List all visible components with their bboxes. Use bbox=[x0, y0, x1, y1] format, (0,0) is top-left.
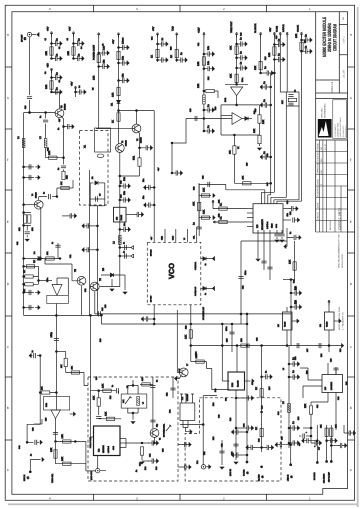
svg-text:1K: 1K bbox=[23, 289, 26, 292]
svg-text:C36: C36 bbox=[281, 437, 284, 440]
svg-text:R41: R41 bbox=[293, 280, 296, 283]
svg-text:MOD: MOD bbox=[172, 235, 175, 240]
svg-text:C16: C16 bbox=[189, 109, 192, 112]
svg-text:R78: R78 bbox=[320, 354, 323, 357]
svg-text:RX DATA: RX DATA bbox=[313, 472, 316, 480]
svg-text:1u: 1u bbox=[30, 454, 33, 456]
svg-text:MIC AUDIO: MIC AUDIO bbox=[323, 473, 326, 483]
svg-text:+5V: +5V bbox=[71, 81, 74, 86]
svg-text:10K: 10K bbox=[254, 65, 257, 70]
svg-text:+9V: +9V bbox=[112, 39, 115, 44]
svg-text:C2: C2 bbox=[66, 38, 69, 40]
svg-text:(A): (A) bbox=[261, 475, 264, 478]
svg-text:TX EN: TX EN bbox=[276, 26, 279, 32]
svg-text:B: B bbox=[7, 406, 9, 410]
svg-text:C9: C9 bbox=[99, 194, 102, 196]
svg-text:4u7: 4u7 bbox=[298, 443, 301, 446]
svg-text:ENGINEERING: ENGINEERING bbox=[324, 103, 327, 118]
svg-text:L4741-1: L4741-1 bbox=[266, 221, 269, 229]
svg-text:3: 3 bbox=[136, 496, 138, 500]
svg-text:C64: C64 bbox=[169, 410, 172, 413]
svg-text:DATE: DATE bbox=[317, 202, 320, 208]
svg-text:+12V: +12V bbox=[198, 27, 201, 33]
svg-text:C27: C27 bbox=[58, 119, 61, 122]
svg-text:D2: D2 bbox=[91, 177, 94, 179]
svg-text:+9V: +9V bbox=[47, 26, 50, 31]
svg-text:FL1: FL1 bbox=[181, 397, 184, 400]
svg-text:DRG No: DRG No bbox=[317, 211, 320, 219]
svg-text:H: H bbox=[7, 33, 9, 37]
svg-text:4u7: 4u7 bbox=[318, 447, 321, 450]
svg-text:C44: C44 bbox=[18, 446, 21, 449]
svg-text:R40: R40 bbox=[261, 406, 264, 409]
svg-text:10R: 10R bbox=[295, 33, 298, 38]
svg-text:10R: 10R bbox=[45, 51, 48, 56]
svg-text:C6: C6 bbox=[58, 80, 61, 82]
svg-text:R28: R28 bbox=[47, 148, 50, 151]
svg-text:10K: 10K bbox=[185, 334, 188, 339]
svg-text:1 OF 1: 1 OF 1 bbox=[343, 36, 346, 44]
svg-text:1n: 1n bbox=[265, 371, 268, 373]
svg-text:C29: C29 bbox=[24, 106, 27, 109]
svg-text:R25: R25 bbox=[226, 339, 229, 342]
svg-text:R18: R18 bbox=[214, 107, 217, 110]
svg-text:R24: R24 bbox=[195, 352, 198, 355]
svg-text:10K: 10K bbox=[102, 383, 105, 388]
svg-text:C62: C62 bbox=[218, 415, 221, 418]
svg-text:C4: C4 bbox=[80, 47, 83, 49]
svg-text:1n: 1n bbox=[294, 90, 297, 92]
svg-text:10K: 10K bbox=[105, 411, 108, 416]
svg-text:R83: R83 bbox=[345, 382, 348, 385]
svg-text:10K: 10K bbox=[61, 434, 64, 439]
svg-text:C35: C35 bbox=[258, 439, 261, 442]
svg-text:R12: R12 bbox=[207, 77, 210, 80]
svg-text:VCO: VCO bbox=[167, 263, 176, 279]
svg-text:C70: C70 bbox=[95, 377, 98, 380]
svg-text:RX AUD: RX AUD bbox=[258, 474, 261, 481]
svg-text:22K: 22K bbox=[304, 403, 307, 408]
svg-text:C72: C72 bbox=[203, 452, 206, 455]
svg-text:4: 4 bbox=[49, 7, 51, 11]
svg-text:IC7: IC7 bbox=[277, 324, 280, 327]
svg-text:(A): (A) bbox=[246, 471, 249, 474]
svg-text:10K: 10K bbox=[262, 119, 265, 124]
svg-text:C5002-13: C5002-13 bbox=[331, 81, 334, 93]
svg-text:1n: 1n bbox=[111, 385, 114, 387]
svg-text:1K: 1K bbox=[151, 55, 154, 58]
svg-text:10.1.97: 10.1.97 bbox=[343, 69, 346, 78]
svg-text:F: F bbox=[350, 158, 352, 162]
svg-text:10K: 10K bbox=[230, 73, 233, 78]
svg-text:1n: 1n bbox=[289, 232, 292, 234]
svg-text:MIC CLAMP: MIC CLAMP bbox=[328, 471, 331, 482]
svg-text:20MHz to 1000MHz: 20MHz to 1000MHz bbox=[327, 23, 333, 52]
svg-text:CONTROL: CONTROL bbox=[194, 262, 197, 270]
svg-text:MOD IN: MOD IN bbox=[229, 469, 232, 476]
svg-text:C76: C76 bbox=[294, 357, 297, 360]
svg-text:CHECKED: CHECKED bbox=[317, 152, 320, 162]
svg-text:C24: C24 bbox=[330, 359, 333, 362]
svg-text:10K: 10K bbox=[289, 259, 292, 264]
svg-text:C20: C20 bbox=[289, 212, 292, 215]
svg-text:RF OUT: RF OUT bbox=[150, 296, 153, 302]
svg-text:C82: C82 bbox=[337, 397, 340, 400]
svg-text:R3: R3 bbox=[92, 88, 95, 90]
svg-text:L4748-2: L4748-2 bbox=[107, 446, 110, 453]
svg-text:TCXO SEL: TCXO SEL bbox=[51, 474, 54, 483]
svg-text:R22: R22 bbox=[218, 214, 221, 217]
svg-text:MX365A: MX365A bbox=[102, 445, 105, 453]
svg-text:10n: 10n bbox=[294, 299, 297, 304]
svg-text:C4: C4 bbox=[78, 86, 81, 88]
svg-text:10n: 10n bbox=[142, 179, 145, 182]
svg-text:10n: 10n bbox=[294, 285, 297, 290]
svg-text:1n: 1n bbox=[51, 242, 54, 244]
svg-text:10n: 10n bbox=[207, 60, 210, 65]
svg-text:C52: C52 bbox=[84, 289, 87, 292]
svg-text:10R: 10R bbox=[197, 83, 200, 88]
svg-text:10n: 10n bbox=[123, 176, 126, 181]
svg-text:3: 3 bbox=[136, 7, 138, 11]
svg-text:C21: C21 bbox=[16, 242, 19, 245]
svg-text:X2: X2 bbox=[126, 386, 129, 388]
svg-text:D4: D4 bbox=[33, 252, 36, 254]
svg-text:R80: R80 bbox=[297, 417, 300, 420]
svg-text:C9: C9 bbox=[122, 38, 125, 40]
svg-text:1n: 1n bbox=[123, 242, 126, 244]
svg-text:F: F bbox=[7, 158, 9, 162]
svg-text:RF OUT: RF OUT bbox=[21, 34, 24, 42]
svg-text:FX 9244 5522: FX 9244 5522 bbox=[344, 126, 347, 137]
svg-text:GND: GND bbox=[161, 235, 164, 240]
svg-text:C45: C45 bbox=[266, 183, 269, 186]
svg-text:CV1: CV1 bbox=[122, 400, 125, 404]
svg-text:10n: 10n bbox=[207, 45, 210, 50]
svg-text:C77: C77 bbox=[306, 349, 309, 352]
svg-text:L4: L4 bbox=[142, 402, 145, 404]
svg-text:OSBORNE PARK: OSBORNE PARK bbox=[337, 122, 340, 137]
svg-text:+5V: +5V bbox=[47, 63, 50, 68]
svg-text:10K: 10K bbox=[93, 395, 96, 400]
svg-text:R20: R20 bbox=[193, 187, 196, 190]
svg-text:COUNT O/P: COUNT O/P bbox=[194, 286, 197, 296]
svg-text:FLASH IN: FLASH IN bbox=[254, 23, 257, 33]
svg-text:C51: C51 bbox=[69, 255, 72, 258]
svg-text:10R: 10R bbox=[67, 51, 70, 56]
svg-text:C63: C63 bbox=[225, 398, 228, 401]
svg-text:+5V: +5V bbox=[269, 27, 272, 32]
svg-text:1K: 1K bbox=[23, 270, 26, 273]
svg-text:TX AUD: TX AUD bbox=[243, 469, 246, 476]
svg-text:P.M: P.M bbox=[320, 170, 323, 174]
svg-text:DATA IN: DATA IN bbox=[282, 24, 285, 32]
svg-text:MC33171: MC33171 bbox=[330, 382, 333, 390]
svg-text:10R: 10R bbox=[45, 84, 48, 89]
svg-text:5K1: 5K1 bbox=[133, 155, 136, 160]
svg-text:100n: 100n bbox=[244, 271, 247, 275]
svg-text:R68: R68 bbox=[144, 467, 147, 470]
svg-text:C33: C33 bbox=[231, 452, 234, 455]
svg-text:47K: 47K bbox=[193, 201, 196, 206]
svg-text:R71: R71 bbox=[109, 396, 112, 399]
svg-text:POWER CONT: POWER CONT bbox=[93, 44, 96, 60]
svg-text:1n: 1n bbox=[57, 128, 60, 130]
svg-text:1n: 1n bbox=[204, 293, 207, 295]
svg-text:100p: 100p bbox=[50, 332, 53, 338]
svg-text:TUNE VOLT: TUNE VOLT bbox=[230, 21, 233, 33]
svg-text:C22: C22 bbox=[242, 286, 245, 289]
svg-text:1K: 1K bbox=[33, 260, 36, 263]
svg-text:1K: 1K bbox=[255, 387, 258, 390]
svg-text:C69: C69 bbox=[155, 467, 158, 470]
svg-text:CFW455: CFW455 bbox=[186, 394, 189, 401]
svg-text:1: 1 bbox=[309, 7, 311, 11]
svg-text:R75: R75 bbox=[268, 387, 271, 390]
svg-text:T8: T8 bbox=[159, 438, 162, 440]
svg-text:R67: R67 bbox=[45, 418, 48, 421]
svg-text:10K: 10K bbox=[61, 456, 64, 461]
svg-text:BFR96: BFR96 bbox=[35, 192, 38, 198]
svg-text:C3: C3 bbox=[44, 72, 47, 74]
svg-text:10n: 10n bbox=[122, 73, 125, 78]
svg-text:R26: R26 bbox=[306, 371, 309, 374]
svg-text:C15: C15 bbox=[275, 36, 278, 39]
svg-text:(A): (A) bbox=[290, 475, 293, 478]
svg-text:E: E bbox=[7, 220, 9, 224]
svg-text:1n: 1n bbox=[43, 192, 46, 194]
svg-text:10n: 10n bbox=[103, 59, 106, 64]
svg-text:DRAWN: DRAWN bbox=[317, 142, 320, 150]
svg-text:C8: C8 bbox=[102, 44, 105, 46]
svg-text:10R: 10R bbox=[240, 338, 243, 342]
svg-text:1K: 1K bbox=[112, 120, 115, 123]
svg-text:C53: C53 bbox=[104, 305, 107, 308]
svg-text:C79: C79 bbox=[339, 349, 342, 352]
svg-text:100n: 100n bbox=[225, 327, 228, 331]
svg-text:2. ? DENOTES 1%: 2. ? DENOTES 1% bbox=[342, 312, 345, 330]
svg-text:LINE IN: LINE IN bbox=[287, 474, 290, 481]
svg-text:1n: 1n bbox=[156, 380, 159, 382]
svg-text:C84: C84 bbox=[277, 412, 280, 415]
svg-text:R19: R19 bbox=[254, 109, 257, 112]
svg-text:1n: 1n bbox=[39, 116, 42, 118]
svg-text:78L05: 78L05 bbox=[284, 322, 287, 327]
svg-text:BFR96: BFR96 bbox=[140, 137, 143, 143]
svg-text:C81: C81 bbox=[316, 405, 319, 408]
svg-text:1u: 1u bbox=[31, 350, 34, 352]
svg-text:CIRCUIT DIAGRAM: CIRCUIT DIAGRAM bbox=[332, 24, 338, 51]
svg-text:10n: 10n bbox=[123, 190, 126, 195]
svg-text:C31: C31 bbox=[149, 454, 152, 457]
svg-text:MOD OUT: MOD OUT bbox=[90, 470, 93, 480]
svg-text:REVISION: REVISION bbox=[329, 220, 332, 230]
svg-text:10R: 10R bbox=[268, 52, 271, 57]
svg-text:B: B bbox=[350, 406, 352, 410]
svg-text:SPECTRA: SPECTRA bbox=[321, 108, 324, 118]
svg-text:C11: C11 bbox=[197, 43, 200, 46]
svg-text:10R: 10R bbox=[93, 75, 96, 80]
svg-text:10R: 10R bbox=[112, 92, 115, 97]
svg-text:10K: 10K bbox=[253, 128, 256, 133]
svg-text:10n: 10n bbox=[286, 213, 289, 216]
svg-text:10.1.97: 10.1.97 bbox=[324, 143, 327, 151]
svg-text:PH 9244 5577: PH 9244 5577 bbox=[342, 126, 345, 138]
svg-text:R21: R21 bbox=[218, 200, 221, 203]
svg-text:4: 4 bbox=[49, 496, 51, 500]
svg-text:R60: R60 bbox=[212, 403, 215, 406]
svg-text:(A): (A) bbox=[27, 476, 30, 479]
svg-text:C32: C32 bbox=[221, 444, 224, 447]
svg-text:P.M: P.M bbox=[320, 158, 323, 162]
svg-text:1n: 1n bbox=[57, 168, 60, 170]
svg-text:10n: 10n bbox=[122, 55, 125, 60]
svg-text:T4: T4 bbox=[31, 194, 34, 196]
svg-text:RF MOD: RF MOD bbox=[150, 249, 153, 256]
svg-text:C26: C26 bbox=[120, 195, 123, 198]
svg-text:IC8: IC8 bbox=[319, 324, 322, 327]
svg-text:C12: C12 bbox=[101, 308, 104, 311]
svg-text:10n: 10n bbox=[123, 223, 126, 226]
svg-text:(H): (H) bbox=[24, 37, 27, 40]
svg-text:RTC IN: RTC IN bbox=[23, 474, 26, 481]
svg-text:1n: 1n bbox=[123, 251, 126, 253]
svg-text:R61: R61 bbox=[229, 418, 232, 421]
svg-text:BFR96: BFR96 bbox=[125, 140, 128, 146]
svg-text:MODIFIED: MODIFIED bbox=[317, 186, 320, 196]
svg-text:R16: R16 bbox=[170, 47, 173, 50]
svg-text:C13: C13 bbox=[240, 33, 243, 36]
svg-text:2: 2 bbox=[223, 496, 225, 500]
svg-text:MX800 EXCITER MODULE: MX800 EXCITER MODULE bbox=[322, 16, 328, 57]
svg-text:R15: R15 bbox=[264, 57, 267, 60]
svg-text:C74: C74 bbox=[251, 382, 254, 385]
svg-text:C19: C19 bbox=[286, 201, 289, 204]
svg-text:1n: 1n bbox=[135, 470, 138, 472]
svg-text:BFR96: BFR96 bbox=[64, 103, 67, 110]
svg-text:R48: R48 bbox=[214, 389, 217, 392]
svg-text:1K: 1K bbox=[170, 55, 173, 58]
svg-text:C23: C23 bbox=[256, 338, 259, 341]
svg-text:APPROVED: APPROVED bbox=[317, 162, 320, 174]
svg-text:TXD: TXD bbox=[172, 26, 175, 31]
svg-text:+9V: +9V bbox=[152, 26, 155, 31]
svg-text:C34: C34 bbox=[243, 424, 246, 427]
svg-text:C14: C14 bbox=[151, 37, 154, 40]
svg-text:C30: C30 bbox=[139, 463, 142, 466]
svg-text:10K: 10K bbox=[203, 209, 206, 214]
svg-text:SN16: SN16 bbox=[271, 224, 274, 229]
svg-text:C65: C65 bbox=[162, 449, 165, 452]
svg-text:PWR OPTION: PWR OPTION bbox=[89, 436, 92, 448]
svg-text:C47: C47 bbox=[178, 369, 181, 372]
svg-text:2: 2 bbox=[223, 7, 225, 11]
svg-text:ISSUE: ISSUE bbox=[317, 178, 320, 185]
svg-text:E: E bbox=[350, 220, 352, 224]
svg-text:10n: 10n bbox=[142, 196, 145, 199]
svg-text:C66: C66 bbox=[32, 428, 35, 431]
svg-text:C25: C25 bbox=[120, 181, 123, 184]
svg-text:C46: C46 bbox=[266, 154, 269, 157]
svg-text:CLOCK: CLOCK bbox=[297, 24, 300, 32]
svg-text:1K: 1K bbox=[255, 427, 258, 430]
svg-text:1n: 1n bbox=[204, 264, 207, 266]
svg-text:COUNTER O/P: COUNTER O/P bbox=[202, 306, 205, 320]
svg-text:47K: 47K bbox=[230, 45, 233, 50]
svg-text:1: 1 bbox=[309, 496, 311, 500]
svg-text:H: H bbox=[350, 33, 352, 37]
svg-text:R23: R23 bbox=[185, 326, 188, 329]
svg-text:+9V: +9V bbox=[69, 26, 72, 31]
svg-text:12 MCCABE ST: 12 MCCABE ST bbox=[334, 123, 337, 137]
svg-text:CTL: CTL bbox=[193, 236, 196, 239]
svg-text:RX TONE LEVEL: RX TONE LEVEL bbox=[163, 424, 166, 437]
svg-text:APPLICATION: APPLICATION bbox=[341, 254, 344, 268]
svg-text:R50: R50 bbox=[99, 339, 102, 342]
svg-text:C1: C1 bbox=[44, 38, 47, 40]
svg-text:NOTE: 1. NOT ALL PINS: NOTE: 1. NOT ALL PINS bbox=[338, 306, 341, 330]
svg-text:78L05: 78L05 bbox=[326, 322, 329, 327]
svg-text:R73: R73 bbox=[212, 437, 215, 440]
svg-text:J.M: J.M bbox=[320, 147, 323, 151]
svg-text:C17: C17 bbox=[246, 163, 249, 166]
svg-text:10R: 10R bbox=[197, 61, 200, 66]
svg-text:10R: 10R bbox=[66, 175, 69, 179]
svg-text:IC6b: IC6b bbox=[45, 403, 48, 407]
svg-text:10K: 10K bbox=[50, 447, 53, 452]
svg-text:C18: C18 bbox=[202, 176, 205, 179]
svg-text:TP2: TP2 bbox=[196, 461, 199, 464]
svg-text:WESTERN AUSTRALIA: WESTERN AUSTRALIA bbox=[339, 117, 342, 137]
svg-text:78L05: 78L05 bbox=[120, 214, 123, 220]
svg-text:SPECTRA ENGINEERING PTY LTD: SPECTRA ENGINEERING PTY LTD bbox=[338, 234, 341, 268]
svg-text:SL6440: SL6440 bbox=[237, 380, 240, 387]
svg-text:R62: R62 bbox=[166, 393, 169, 396]
svg-text:C2: C2 bbox=[58, 47, 61, 49]
svg-text:R17: R17 bbox=[304, 40, 307, 43]
svg-text:L5: L5 bbox=[282, 368, 285, 370]
svg-text:MC145170: MC145170 bbox=[261, 219, 264, 230]
svg-text:4049: 4049 bbox=[112, 446, 115, 450]
svg-text:22p: 22p bbox=[156, 424, 159, 427]
svg-text:C5002-1 SHT3: C5002-1 SHT3 bbox=[338, 208, 342, 230]
svg-text:10K: 10K bbox=[203, 187, 206, 192]
